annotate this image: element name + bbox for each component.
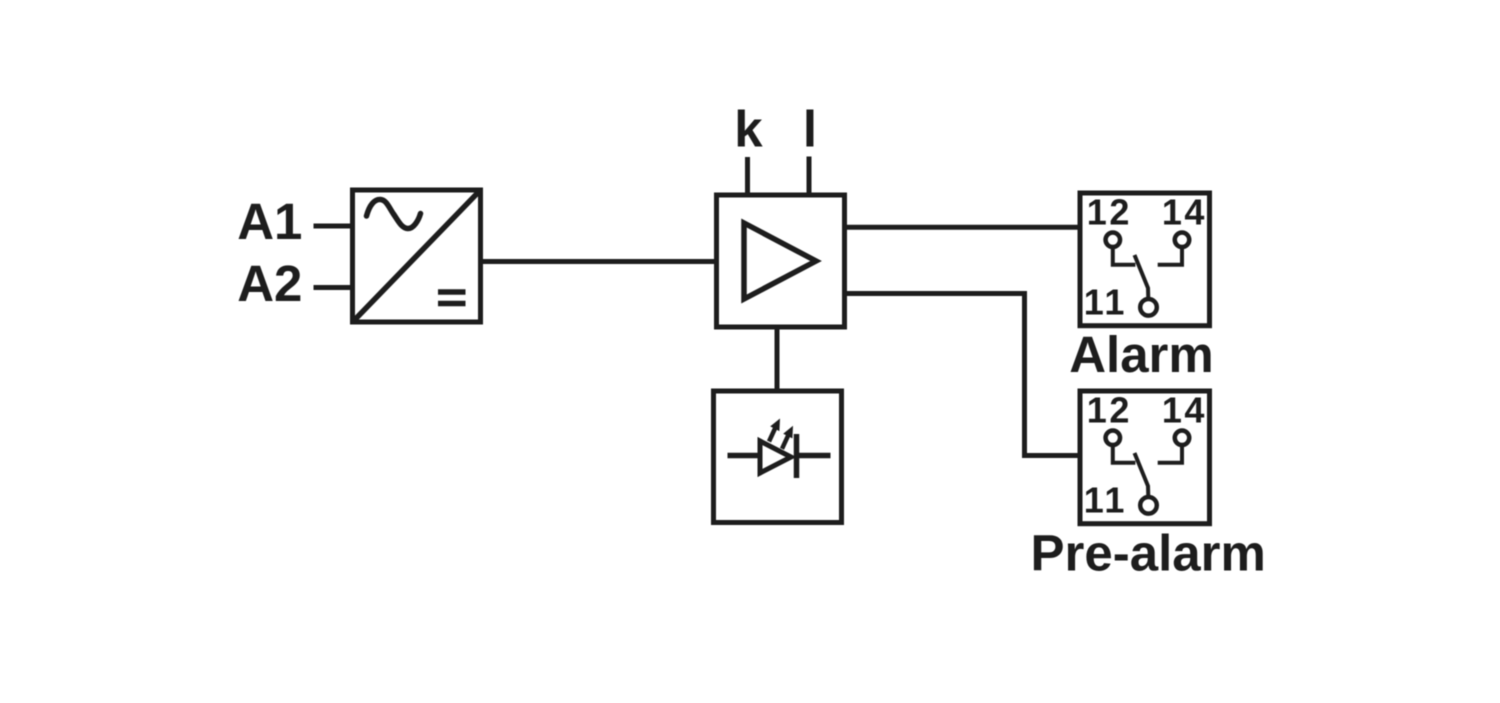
LED D1 diode triangle xyxy=(760,441,791,473)
contact circle 11 xyxy=(1140,299,1157,316)
wire U1 output to amplifier U2 xyxy=(480,259,717,264)
relay box xyxy=(1080,193,1210,326)
contact circle 14 xyxy=(1175,233,1190,248)
svg-text:A2: A2 xyxy=(237,255,302,312)
wire A1 to power supply U1 xyxy=(314,224,354,229)
power supply U1 diagonal xyxy=(354,192,479,321)
amplifier U2 triangle xyxy=(744,223,816,299)
svg-text:11: 11 xyxy=(1084,281,1127,322)
switch lever xyxy=(1135,255,1149,299)
LED D1 anode lead xyxy=(728,453,763,459)
contact 12 lead xyxy=(1113,247,1136,265)
LED D1 emission arrow 2 xyxy=(782,426,793,449)
wire stub k xyxy=(745,157,750,197)
LED D1 box xyxy=(714,391,842,523)
wire U2 to alarm relay K1 xyxy=(844,225,1080,230)
LED D1 cathode bar xyxy=(794,434,800,478)
svg-text:14: 14 xyxy=(1162,191,1207,232)
svg-text:l: l xyxy=(803,101,817,158)
wire A2 to power supply U1 xyxy=(314,285,354,290)
svg-text:Alarm: Alarm xyxy=(1069,326,1214,383)
amplifier U2 box xyxy=(717,195,845,327)
power supply U1 DC symbol (=) xyxy=(438,289,466,295)
svg-text:12: 12 xyxy=(1087,191,1132,232)
power supply U1 box xyxy=(353,190,481,322)
contact circle 12 xyxy=(1106,233,1121,248)
svg-text:A1: A1 xyxy=(237,193,302,250)
alarm relay K1 contact block xyxy=(1080,191,1210,325)
svg-text:k: k xyxy=(734,101,763,158)
LED D1 emission arrow 1 xyxy=(769,419,780,442)
contact 14 lead xyxy=(1158,247,1182,265)
svg-text:Pre-alarm: Pre-alarm xyxy=(1031,524,1266,581)
wire U2 to LED D1 xyxy=(775,325,780,394)
wire stub l xyxy=(807,157,812,198)
pre-alarm relay K2 contact block xyxy=(1080,389,1210,523)
wire U2 to pre-alarm relay K2 xyxy=(844,294,1080,456)
power supply U1 AC sine symbol xyxy=(367,199,421,228)
LED D1 cathode lead xyxy=(794,453,831,459)
